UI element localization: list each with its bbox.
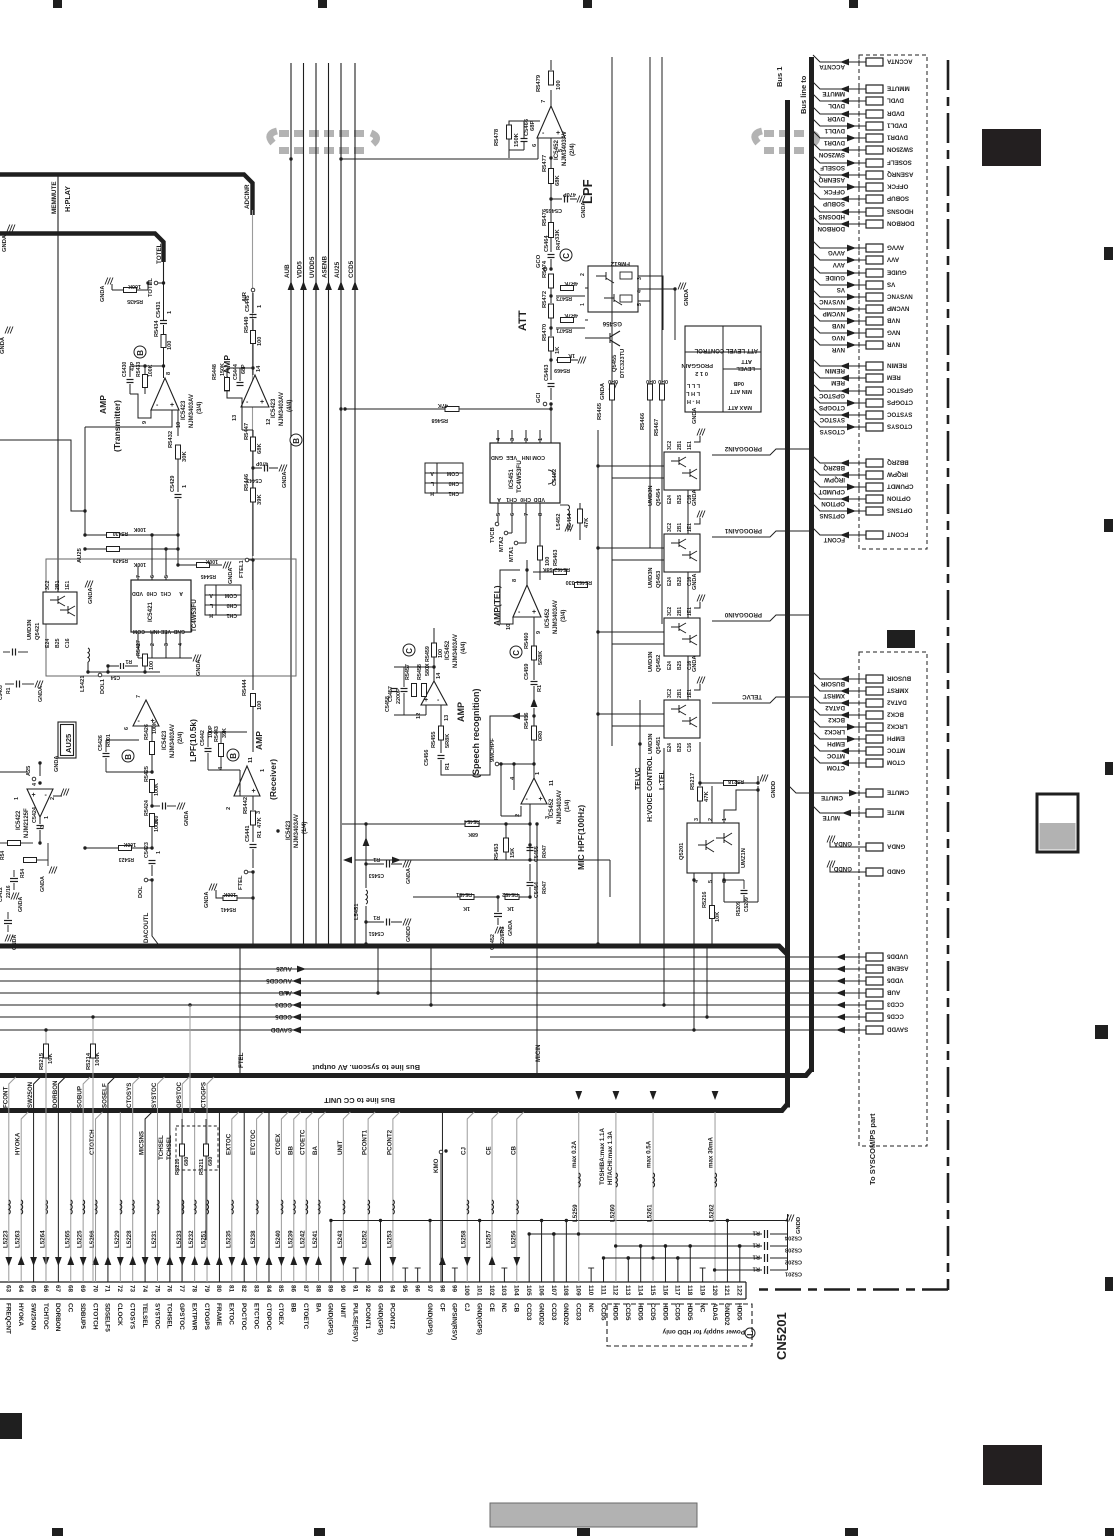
svg-text:GNDA: GNDA [886, 843, 905, 850]
svg-text:CTOGPS: CTOGPS [203, 1303, 210, 1331]
svg-text:NJM3403AV: NJM3403AV [294, 814, 300, 848]
capacitor C5444 68P [237, 382, 244, 384]
circle B lpf105 [122, 750, 134, 762]
wire C16 columns [687, 490, 689, 534]
svg-text:68K: 68K [555, 175, 561, 186]
capacitor C5451 R1 [364, 920, 367, 923]
capacitor C5462 [548, 470, 555, 484]
svg-text:+: + [556, 130, 560, 137]
capacitor C5204 [764, 1230, 766, 1238]
svg-text:REMIN: REMIN [825, 367, 845, 374]
svg-text:GNDD: GNDD [833, 865, 852, 872]
inductor L5225 [83, 1200, 84, 1214]
svg-text:DORBON: DORBON [817, 225, 845, 232]
inductor L5452 [568, 505, 569, 519]
svg-text:CE: CE [488, 1303, 495, 1313]
svg-text:98: 98 [438, 1285, 445, 1293]
svg-text:BA: BA [314, 1303, 321, 1313]
resistor R5451 1K [460, 895, 474, 900]
svg-text:47K: 47K [584, 518, 590, 528]
svg-text:68: 68 [67, 1285, 74, 1293]
svg-text:L5239: L5239 [287, 1230, 294, 1248]
registration mark top 1 [53, 0, 62, 8]
signal row GNDD [836, 871, 866, 873]
resistor R5478 [507, 125, 512, 139]
svg-text:CPUMDT: CPUMDT [818, 488, 845, 495]
svg-text:1: 1 [156, 851, 162, 854]
stub NC pin 99 [454, 1268, 456, 1282]
svg-text:A: A [179, 590, 183, 596]
svg-text:GNDD2: GNDD2 [723, 1303, 730, 1326]
svg-text:GNDA: GNDA [18, 896, 24, 912]
svg-text:L5229: L5229 [114, 1230, 121, 1248]
svg-text:CTOSYS: CTOSYS [126, 1083, 133, 1108]
svg-text:LEVEL: LEVEL [736, 365, 755, 371]
svg-text:1: 1 [44, 816, 50, 819]
svg-text:UMD3N: UMD3N [27, 619, 33, 640]
big wire box IC5421 section [46, 559, 296, 676]
svg-text:UMD3N: UMD3N [648, 485, 654, 506]
wire caps to GNDD [787, 1214, 789, 1270]
svg-text:107: 107 [550, 1285, 557, 1296]
svg-text:3C2: 3C2 [667, 607, 673, 616]
svg-text:C5430: C5430 [122, 362, 128, 377]
inductor L5266 [96, 1200, 97, 1214]
svg-text:R5425: R5425 [144, 766, 150, 782]
svg-text:IC5423: IC5423 [181, 400, 187, 420]
svg-text:HDOSNS: HDOSNS [887, 208, 913, 215]
svg-text:R1: R1 [752, 1266, 760, 1272]
svg-text:AMP: AMP [456, 702, 466, 722]
svg-text:IC5421: IC5421 [147, 601, 154, 622]
svg-text:GNDD: GNDD [886, 868, 905, 875]
svg-text:L5259: L5259 [572, 1204, 579, 1222]
wire pin 78 [194, 1112, 196, 1282]
svg-text:IC5422: IC5422 [16, 810, 22, 830]
registration mark bottom right corner [1105, 1528, 1114, 1536]
corner x787 to CC UNIT line [0, 1104, 788, 1111]
svg-text:ATT: ATT [517, 310, 529, 331]
svg-text:2: 2 [150, 643, 156, 646]
svg-text:(3/4): (3/4) [561, 610, 567, 622]
black patch mid right [887, 630, 915, 648]
svg-text:AVV: AVV [832, 261, 845, 268]
svg-text:47K: 47K [257, 817, 263, 828]
svg-text:MMUTE: MMUTE [887, 85, 910, 92]
svg-text:R047: R047 [542, 881, 548, 894]
wire speech fb loop [441, 716, 528, 775]
svg-text:INH: INH [150, 628, 159, 634]
svg-text:4R7K: 4R7K [564, 312, 578, 318]
svg-text:MTOC: MTOC [886, 747, 905, 754]
svg-text:CTOGPS: CTOGPS [819, 404, 845, 411]
resistor R5425 100K [150, 780, 155, 793]
svg-text:+: + [170, 402, 174, 409]
svg-text:GNDA: GNDA [282, 472, 288, 488]
resistor R5452 1K [505, 895, 519, 900]
cap rail C5204 [529, 1233, 762, 1235]
svg-text:DVDR: DVDR [827, 115, 845, 122]
svg-text:TELVC: TELVC [635, 768, 642, 790]
svg-text:12: 12 [266, 419, 272, 425]
svg-text:HYOKA: HYOKA [15, 1132, 22, 1155]
resistor R5457 100X [412, 684, 417, 697]
svg-text:94: 94 [389, 1285, 396, 1293]
svg-text:H:VOICE CONTROL: H:VOICE CONTROL [647, 756, 654, 822]
thick wire MEMMUTE/H:PLAY top [0, 175, 253, 216]
svg-text:1: 1 [538, 438, 544, 441]
svg-text:R1: R1 [373, 914, 380, 920]
svg-text:0dB: 0dB [733, 380, 744, 386]
svg-text:67: 67 [54, 1285, 61, 1293]
svg-text:AVVG: AVVG [887, 244, 904, 251]
svg-text:118: 118 [686, 1285, 693, 1296]
svg-text:5R8K: 5R8K [445, 734, 451, 748]
capacitor C5452 electrolytic [494, 913, 502, 915]
svg-text:C5424: C5424 [32, 807, 38, 823]
svg-text:R5444: R5444 [242, 679, 248, 696]
svg-text:C5452: C5452 [490, 934, 496, 950]
svg-text:IRQPW: IRQPW [824, 476, 845, 483]
resistor R5217 47K [699, 742, 701, 786]
svg-text:R5458: R5458 [417, 664, 423, 680]
svg-text:ACCNTA: ACCNTA [819, 63, 845, 70]
svg-text:MUTE: MUTE [887, 809, 905, 816]
wires Q5452 [650, 631, 664, 633]
fb loop mic [501, 806, 521, 816]
svg-text:L5243: L5243 [337, 1230, 344, 1248]
wire x695 down [693, 946, 695, 1030]
svg-text:GNDA: GNDA [600, 382, 606, 400]
svg-text:C: C [562, 253, 571, 259]
capacitor C5428 380 [150, 804, 153, 807]
half-gray registration box [1037, 794, 1078, 852]
capacitor C5203 [764, 1242, 766, 1250]
svg-text:Power supply for HDD only: Power supply for HDD only [662, 1328, 745, 1335]
svg-text:100K: 100K [95, 1051, 101, 1066]
svg-text:CCD3: CCD3 [575, 1303, 582, 1321]
svg-text:CCD5: CCD5 [275, 1013, 292, 1020]
resistor R5447 68K [251, 437, 256, 451]
svg-text:5R8K: 5R8K [538, 651, 544, 665]
wire pin 76 [169, 1112, 171, 1282]
arrowhead UVDD5 [313, 281, 320, 290]
svg-text:SOSELF: SOSELF [887, 159, 912, 166]
svg-text:L5451: L5451 [354, 903, 360, 920]
svg-text:CB: CB [510, 1146, 517, 1155]
svg-text:1: 1 [535, 772, 541, 775]
svg-text:ACCNTA: ACCNTA [886, 58, 912, 65]
capacitor C5209 [741, 890, 748, 892]
svg-text:R5216: R5216 [702, 892, 708, 908]
svg-text:R5465: R5465 [597, 402, 603, 420]
svg-text:L5235: L5235 [225, 1230, 232, 1248]
signal row NVG [813, 326, 866, 333]
arrowhead pin 78 [191, 1256, 198, 1265]
svg-text:L:TEL: L:TEL [659, 769, 666, 790]
resistor R5454 68K [465, 822, 479, 827]
arrowhead pin 76 [166, 1256, 173, 1265]
svg-text:TOTEL: TOTEL [148, 278, 154, 297]
svg-text:LPF(10.5k): LPF(10.5k) [188, 719, 198, 762]
svg-text:FCONT: FCONT [823, 536, 845, 543]
svg-text:A: A [430, 470, 434, 476]
wire GND pin 101 [479, 1221, 481, 1283]
node MCHPF [495, 762, 499, 766]
svg-text:+: + [32, 792, 36, 799]
wires speech [394, 666, 434, 668]
svg-text:GND(GPS): GND(GPS) [327, 1303, 334, 1335]
svg-text:GNDA: GNDA [692, 490, 698, 506]
wire pin 113 [627, 1258, 629, 1282]
resistor R5459 [432, 643, 437, 657]
svg-text:REMIN: REMIN [886, 362, 906, 369]
wire bus vertical UVDD5 [315, 63, 317, 944]
arrowhead pin 102 [489, 1256, 496, 1265]
resistor R5464 [578, 509, 583, 523]
svg-text:R5211: R5211 [199, 1159, 205, 1175]
svg-text:L5240: L5240 [275, 1230, 282, 1248]
signal label PROGGAIN0 [712, 615, 811, 621]
svg-text:AU25: AU25 [276, 965, 292, 972]
svg-text:R5478: R5478 [494, 128, 500, 146]
svg-text:73: 73 [129, 1285, 136, 1293]
svg-text:109: 109 [575, 1285, 582, 1296]
stub GPSTOC from AV bus [182, 1077, 189, 1282]
svg-text:CCD5: CCD5 [886, 1013, 903, 1020]
op-amp IC5423 (4/4) LPF AMP [241, 375, 269, 407]
svg-text:(Transmitter): (Transmitter) [112, 400, 122, 452]
svg-text:3: 3 [694, 818, 700, 821]
svg-text:GNDA: GNDA [196, 660, 202, 676]
cap C5411 [4, 920, 12, 922]
svg-text:GNDA: GNDA [204, 892, 210, 908]
svg-text:78: 78 [190, 1285, 197, 1293]
stub PCONT1 from CC bus [368, 1112, 375, 1282]
arrowhead pin 85 [278, 1257, 285, 1266]
svg-text:Bus line to syscom. AV output: Bus line to syscom. AV output [312, 1063, 420, 1072]
wires receiver [208, 731, 247, 733]
svg-text:1: 1 [14, 797, 20, 800]
svg-text:R5423: R5423 [119, 856, 134, 862]
svg-text:COM: COM [447, 470, 459, 476]
capacitor C5202 [764, 1254, 766, 1262]
svg-text:max 0.2A: max 0.2A [571, 1140, 578, 1168]
wire out LPF AMP down [241, 407, 243, 430]
svg-text:VDD: VDD [534, 496, 545, 502]
svg-text:BUSOIR: BUSOIR [886, 675, 911, 682]
svg-text:SYSTOC: SYSTOC [886, 411, 912, 418]
stub CE from CC bus [492, 1112, 499, 1282]
svg-text:100: 100 [149, 661, 155, 670]
svg-text:PROGGAIN1: PROGGAIN1 [724, 527, 762, 534]
signal row ACCNTA [813, 55, 866, 62]
svg-text:OFFCK: OFFCK [886, 183, 908, 190]
svg-text:NVSYNC: NVSYNC [819, 298, 845, 305]
svg-text:SW25ON: SW25ON [818, 151, 845, 158]
svg-text:R5449: R5449 [244, 317, 250, 333]
capacitor C5430 47P [127, 379, 134, 381]
stub SOBUP from AV bus [83, 1077, 90, 1282]
svg-text:DOL1: DOL1 [100, 679, 106, 694]
svg-text:1K: 1K [555, 346, 561, 354]
node MTA1 [514, 541, 518, 545]
svg-text:3: 3 [510, 438, 516, 441]
svg-text:99: 99 [451, 1285, 458, 1293]
svg-text:R5461 330: R5461 330 [566, 579, 592, 585]
svg-text:SAVDD: SAVDD [886, 1026, 908, 1033]
ground GNDA FM612 [638, 288, 675, 290]
svg-text:CTOTCH: CTOTCH [91, 1303, 98, 1330]
ground GNDA Q5421 [85, 581, 88, 588]
wire TOTEL vertical [163, 258, 165, 283]
svg-text:0R0: 0R0 [658, 378, 668, 384]
svg-text:R5474: R5474 [542, 260, 548, 278]
resistor R5461 330 [575, 583, 588, 588]
wire x431 to CCD3 row [430, 946, 432, 1005]
node TVCB [495, 522, 499, 526]
svg-text:8: 8 [538, 513, 544, 516]
svg-text:NVG: NVG [831, 334, 845, 341]
svg-text:DVDL1: DVDL1 [824, 127, 845, 134]
capacitor C5429 [175, 494, 182, 496]
resistor R5477 [549, 169, 554, 184]
svg-text:93: 93 [376, 1285, 383, 1293]
svg-text:A: A [497, 496, 501, 502]
svg-text:C5412: C5412 [0, 887, 4, 902]
svg-text:ASENRQ: ASENRQ [887, 171, 914, 178]
svg-text:DORBON: DORBON [54, 1303, 61, 1332]
svg-text:AUCCD5: AUCCD5 [266, 977, 292, 984]
svg-text:3C2: 3C2 [667, 689, 673, 698]
svg-text:5: 5 [637, 303, 643, 306]
svg-text:MICSNS: MICSNS [139, 1131, 146, 1155]
op-amp IC5423 (3/4) transmitter [151, 378, 179, 410]
svg-text:R5433: R5433 [136, 362, 142, 377]
arrowhead pin 63 [5, 1257, 12, 1266]
stub PCONT2 from CC bus [393, 1112, 400, 1282]
wire bus vertical AUB [290, 63, 292, 944]
resistor R5211 [204, 1144, 209, 1156]
svg-text:47K: 47K [438, 402, 448, 408]
corner x811 to syscom line [0, 1069, 812, 1076]
svg-text:2: 2 [515, 814, 521, 817]
svg-text:R5443: R5443 [214, 726, 220, 742]
svg-text:B: B [124, 754, 133, 760]
svg-text:EXTOC: EXTOC [225, 1133, 232, 1155]
svg-text:B: B [292, 438, 301, 444]
svg-text:GNDA: GNDA [692, 574, 698, 590]
svg-text:MICIN: MICIN [535, 1044, 542, 1062]
svg-text:116: 116 [661, 1285, 668, 1296]
svg-text:10: 10 [176, 422, 182, 428]
wire MCHPF drops [500, 764, 502, 816]
signal row DVDL [813, 94, 866, 101]
svg-text:87: 87 [302, 1285, 309, 1293]
svg-text:CCD3: CCD3 [886, 1001, 903, 1008]
svg-text:(Receiver): (Receiver) [268, 759, 278, 800]
svg-text:580X: 580X [425, 663, 431, 676]
svg-text:DVDL: DVDL [887, 97, 904, 104]
svg-text:R5463: R5463 [553, 550, 559, 566]
svg-text:R5472: R5472 [542, 291, 548, 308]
arrowhead pin 72 [117, 1257, 124, 1266]
svg-text:B25: B25 [677, 495, 683, 504]
svg-text:GNDD: GNDD [796, 1217, 802, 1234]
svg-text:0R0: 0R0 [608, 378, 618, 384]
svg-text:FTEL: FTEL [238, 1052, 245, 1068]
svg-text:NJM3403AV: NJM3403AV [170, 724, 176, 758]
capacitor C5423 [149, 860, 156, 862]
svg-text:R54: R54 [20, 869, 26, 878]
inductor L5265 [71, 1200, 72, 1214]
signal row XMRST [813, 684, 866, 691]
svg-text:ETCTOC: ETCTOC [250, 1129, 257, 1155]
svg-text:CLOCK: CLOCK [116, 1303, 123, 1326]
svg-text:C5429: C5429 [170, 476, 176, 492]
svg-text:XMRST: XMRST [887, 687, 909, 694]
svg-text:GCI: GCI [536, 392, 542, 403]
svg-text:Q5454: Q5454 [656, 488, 662, 506]
svg-text:2: 2 [708, 818, 714, 821]
svg-text:GNDA: GNDA [12, 934, 18, 950]
stub EXTOC from CC bus [232, 1112, 239, 1282]
svg-text:SW25ON: SW25ON [29, 1303, 36, 1330]
svg-text:86: 86 [290, 1285, 297, 1293]
svg-text:IC5452: IC5452 [445, 640, 451, 660]
svg-text:88: 88 [314, 1285, 321, 1293]
stub MICSNS from CC bus [145, 1112, 152, 1282]
svg-text:121: 121 [723, 1285, 730, 1296]
wire pin 121 [726, 1221, 728, 1283]
svg-text:2B1: 2B1 [677, 607, 683, 616]
svg-text:74: 74 [141, 1285, 148, 1293]
svg-text:L5263: L5263 [15, 1230, 22, 1248]
svg-text:VEE: VEE [506, 454, 517, 460]
svg-text:TCHSEL: TCHSEL [166, 1303, 173, 1329]
connector circled L [745, 1328, 755, 1338]
svg-text:C5411: C5411 [0, 931, 2, 946]
capacitor C5431 [160, 320, 167, 322]
svg-text:CCD5: CCD5 [624, 1303, 631, 1321]
svg-text:GNDA: GNDA [54, 756, 60, 772]
svg-text:NJM3403AV: NJM3403AV [279, 392, 285, 426]
capacitor C5459 [533, 660, 535, 680]
registration mark bottom 2 [314, 1528, 325, 1536]
inductor L5253 [393, 1200, 394, 1214]
junction TELVC [638, 742, 641, 745]
stub NC pin 119 [702, 1268, 704, 1282]
svg-text:R5209: R5209 [736, 901, 742, 916]
stub ETCTOC from CC bus [257, 1112, 264, 1282]
svg-text:B25: B25 [55, 638, 61, 648]
svg-text:OPTION: OPTION [821, 500, 845, 507]
svg-text:119: 119 [698, 1285, 705, 1296]
resistor R5473 horizontal [561, 286, 574, 291]
svg-text:HDD5: HDD5 [636, 1303, 643, 1321]
capacitor C5420 R1 [120, 663, 122, 669]
svg-text:CCD5: CCD5 [649, 1303, 656, 1321]
ground GNDA r [49, 867, 52, 874]
svg-text:R1: R1 [257, 831, 263, 838]
inductor L5238 [257, 1200, 258, 1214]
svg-text:R5441: R5441 [221, 906, 236, 912]
transistor Q5452 UMD3N [664, 618, 700, 656]
svg-text:LPF: LPF [580, 179, 595, 204]
svg-text:DATA2: DATA2 [825, 704, 845, 711]
svg-text:ATT: ATT [741, 358, 752, 364]
svg-text:13: 13 [232, 415, 238, 421]
